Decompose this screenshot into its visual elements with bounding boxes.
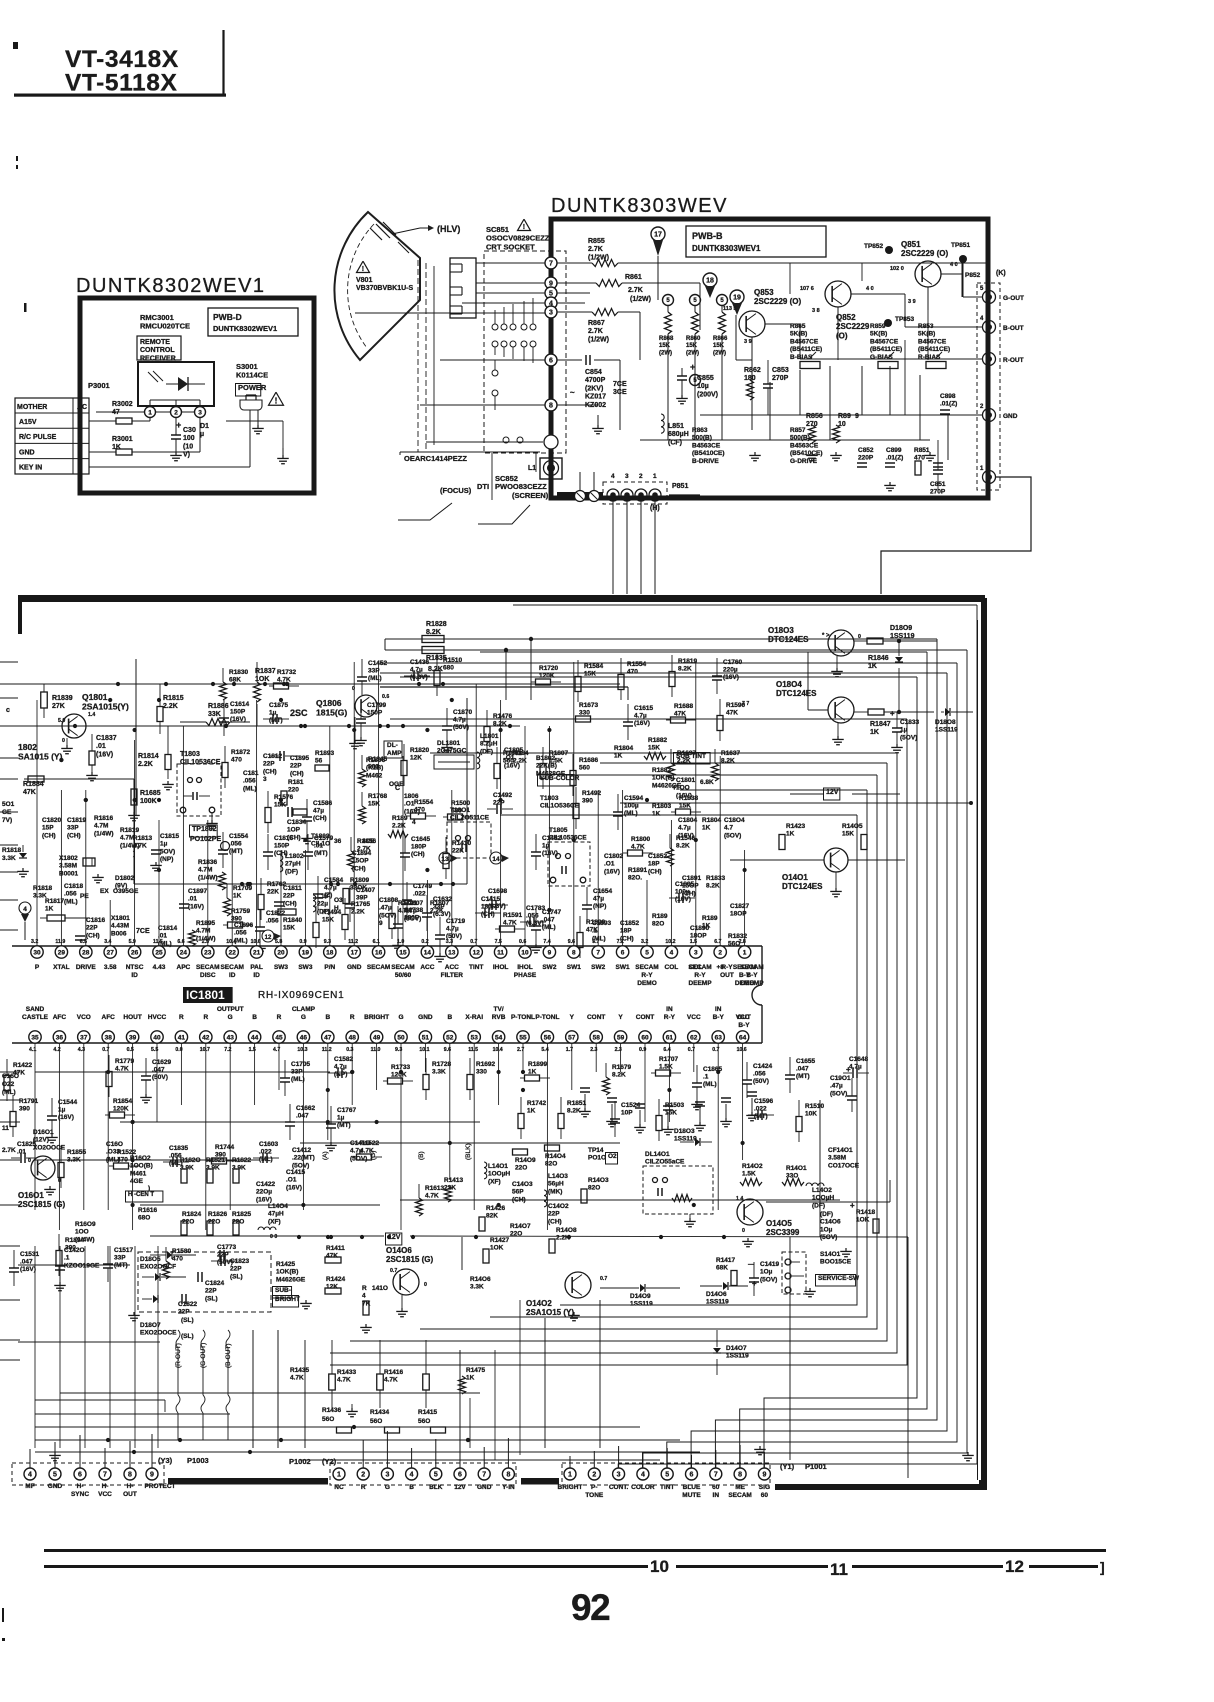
svg-text:L851: L851 (668, 423, 684, 430)
svg-text:O18O3: O18O3 (768, 626, 794, 635)
svg-text:.056: .056 (64, 891, 77, 898)
svg-text:C1822: C1822 (266, 910, 286, 917)
svg-text:TINT: TINT (660, 1484, 674, 1491)
svg-text:0 0: 0 0 (270, 1234, 277, 1240)
svg-text:C1524: C1524 (621, 1102, 641, 1109)
svg-text:56O: 56O (370, 1418, 382, 1425)
svg-text:O14O1: O14O1 (782, 873, 808, 882)
svg-text:15K: 15K (648, 745, 660, 752)
svg-text:R1804: R1804 (614, 745, 634, 752)
svg-text:82O: 82O (652, 921, 664, 928)
svg-text:R1813: R1813 (133, 835, 153, 842)
svg-text:(B): (B) (418, 1151, 425, 1160)
svg-text:27K: 27K (52, 703, 65, 710)
svg-text:9: 9 (150, 1472, 154, 1479)
svg-text:(CH): (CH) (411, 851, 425, 858)
svg-text:R867: R867 (588, 320, 605, 327)
svg-text:44: 44 (251, 1034, 259, 1041)
svg-text:2.7K: 2.7K (628, 287, 643, 294)
svg-text:R1679: R1679 (612, 1064, 632, 1071)
svg-text:OEARC1414PEZZ: OEARC1414PEZZ (404, 454, 467, 463)
svg-text:DL1801: DL1801 (437, 740, 461, 747)
svg-text:9: 9 (762, 1472, 766, 1479)
svg-text:R1433: R1433 (337, 1369, 357, 1376)
svg-text:(FOCUS): (FOCUS) (440, 486, 472, 495)
svg-text:Q1806: Q1806 (316, 698, 342, 708)
svg-text:(HLV): (HLV) (437, 224, 460, 234)
svg-text:1815(G): 1815(G) (316, 708, 347, 718)
svg-text:63: 63 (715, 1034, 723, 1041)
svg-text:47K: 47K (23, 789, 36, 796)
svg-text:1802: 1802 (18, 742, 37, 752)
svg-text:D16O1: D16O1 (33, 1129, 54, 1136)
svg-text:R1814: R1814 (138, 753, 159, 760)
svg-text:37: 37 (80, 1034, 88, 1041)
svg-text:19: 19 (302, 949, 310, 956)
svg-text:(ML): (ML) (64, 898, 78, 905)
svg-text:5.8: 5.8 (275, 939, 282, 945)
svg-text:PHASE: PHASE (514, 972, 537, 979)
svg-text:C1554: C1554 (229, 833, 249, 840)
svg-text:C14O2: C14O2 (548, 1203, 569, 1210)
svg-text:R1839: R1839 (52, 695, 73, 702)
svg-text:G: G (301, 1014, 306, 1021)
svg-text:C1584: C1584 (324, 877, 344, 884)
svg-text:150P: 150P (274, 843, 290, 850)
svg-text:R1686: R1686 (579, 757, 599, 764)
svg-text:1: 1 (337, 1472, 341, 1479)
svg-text:VCC: VCC (98, 1491, 112, 1498)
svg-text:(CH): (CH) (548, 1218, 562, 1225)
svg-text:100K: 100K (140, 798, 157, 805)
svg-text:560: 560 (368, 764, 379, 771)
svg-text:61: 61 (666, 1034, 674, 1041)
svg-text:4: 4 (23, 906, 27, 913)
svg-text:(ML): (ML) (368, 675, 382, 682)
svg-text:3 9: 3 9 (908, 299, 916, 305)
svg-text:22O: 22O (515, 1165, 527, 1172)
svg-text:(NP): (NP) (334, 1071, 347, 1078)
svg-text:R859: R859 (870, 323, 886, 330)
svg-text:ID: ID (229, 972, 236, 979)
svg-text:.1: .1 (64, 1255, 70, 1262)
svg-text:B4567CE: B4567CE (790, 338, 819, 345)
svg-text:3.3K: 3.3K (2, 855, 16, 862)
svg-text:G: G (385, 1484, 390, 1491)
svg-text:!: ! (523, 223, 525, 231)
svg-text:2SA1O15 (Y): 2SA1O15 (Y) (526, 1308, 574, 1317)
svg-text:R1732: R1732 (277, 669, 297, 676)
svg-text:C1822: C1822 (178, 1301, 198, 1308)
svg-text:100: 100 (183, 435, 195, 442)
svg-text:220P: 220P (858, 455, 874, 462)
svg-text:D14O7: D14O7 (726, 1345, 747, 1352)
svg-text:R1856: R1856 (357, 838, 377, 845)
svg-text:R1616: R1616 (138, 1207, 158, 1214)
svg-text:60: 60 (641, 1034, 649, 1041)
svg-text:.047: .047 (20, 1259, 33, 1266)
svg-text:(16V): (16V) (58, 1114, 74, 1121)
svg-text:BRIGHT: BRIGHT (364, 1014, 389, 1021)
svg-text:(50V): (50V) (453, 724, 469, 731)
svg-text:C1419: C1419 (760, 1261, 780, 1268)
svg-text:RMCU020TCE: RMCU020TCE (140, 322, 190, 331)
svg-text:11.5: 11.5 (468, 1047, 478, 1053)
svg-text:]: ] (1100, 1559, 1105, 1575)
svg-text:P852: P852 (965, 272, 981, 279)
svg-text:(B5411CE): (B5411CE) (918, 346, 950, 353)
svg-text:Y: Y (570, 1014, 575, 1021)
svg-text:R1410: R1410 (452, 840, 472, 847)
svg-text:390: 390 (582, 798, 593, 805)
svg-text:TONE: TONE (585, 1492, 604, 1499)
svg-text:.O1: .O1 (604, 861, 615, 868)
svg-text:R1804: R1804 (702, 817, 722, 824)
svg-text:10.6: 10.6 (737, 1047, 747, 1053)
svg-text:(DF): (DF) (820, 1211, 833, 1218)
svg-text:0: 0 (742, 1228, 745, 1234)
svg-text:R: R (361, 1484, 366, 1491)
svg-text:2SC2229 (O): 2SC2229 (O) (901, 249, 948, 258)
svg-text:.022: .022 (259, 1149, 272, 1156)
svg-text:(B5411CE): (B5411CE) (870, 346, 902, 353)
svg-text:DUNTK8302WEV1: DUNTK8302WEV1 (213, 324, 277, 333)
svg-text:17: 17 (351, 949, 359, 956)
svg-text:SECAM: SECAM (196, 964, 219, 971)
svg-text:C1773: C1773 (217, 1244, 237, 1251)
svg-text:R1416: R1416 (384, 1369, 404, 1376)
svg-text:R14O1: R14O1 (786, 1165, 807, 1172)
svg-text:R856: R856 (806, 413, 823, 420)
svg-text:1K: 1K (870, 729, 879, 736)
svg-text:22P: 22P (548, 1211, 560, 1218)
svg-text:SECAM: SECAM (635, 964, 658, 971)
svg-text:SERVICE-SW: SERVICE-SW (818, 1275, 860, 1282)
svg-text:43: 43 (227, 1034, 235, 1041)
svg-text:53: 53 (471, 1034, 479, 1041)
svg-text:C30: C30 (183, 427, 196, 434)
svg-text:3.2: 3.2 (31, 939, 38, 945)
svg-text:CIL10536CE: CIL10536CE (180, 759, 221, 766)
svg-text:ID: ID (131, 972, 138, 979)
svg-text:R: R (350, 1014, 355, 1021)
svg-text:SIG: SIG (759, 1484, 770, 1491)
svg-text:+: + (690, 362, 695, 372)
svg-text:68K: 68K (716, 1265, 728, 1272)
svg-text:390: 390 (65, 1245, 76, 1252)
svg-text:C1412: C1412 (292, 1147, 312, 1154)
svg-text:HOUT: HOUT (123, 1014, 141, 1021)
svg-text:(XF): (XF) (488, 1178, 501, 1185)
svg-text:CONT: CONT (587, 1014, 605, 1021)
svg-text:29: 29 (58, 949, 66, 956)
svg-text:5: 5 (665, 1472, 669, 1479)
svg-text:D14O9: D14O9 (630, 1293, 651, 1300)
svg-text:R1833: R1833 (706, 875, 726, 882)
svg-text:56P: 56P (512, 1189, 524, 1196)
svg-text:C1579: C1579 (314, 835, 334, 842)
svg-text:R14O9: R14O9 (515, 1157, 536, 1164)
svg-text:!: ! (275, 396, 278, 405)
svg-text:BLUE: BLUE (683, 1484, 701, 1491)
svg-text:C16O: C16O (2, 1073, 19, 1080)
svg-text:3.58: 3.58 (104, 964, 117, 971)
svg-text:COLOR: COLOR (631, 1484, 655, 1491)
svg-text:DL-: DL- (387, 742, 398, 749)
svg-text:6: 6 (690, 1472, 694, 1479)
svg-text:.1: .1 (703, 1074, 709, 1081)
svg-text:R861: R861 (625, 274, 642, 281)
svg-text:17: 17 (654, 232, 662, 239)
svg-text:60: 60 (761, 1492, 769, 1499)
svg-text:L1: L1 (528, 465, 536, 472)
svg-text:100µ: 100µ (624, 803, 639, 810)
svg-text:47µH: 47µH (268, 1211, 284, 1218)
svg-text:47: 47 (112, 409, 120, 416)
svg-text:OSOCV0829CEZZ: OSOCV0829CEZZ (486, 234, 550, 243)
svg-text:SW3: SW3 (274, 964, 288, 971)
svg-text:B006: B006 (111, 930, 127, 937)
svg-text:1SS119: 1SS119 (706, 1299, 729, 1306)
svg-text:(16V): (16V) (286, 1184, 302, 1191)
svg-text:2.2K: 2.2K (138, 761, 153, 768)
svg-text:AFC: AFC (102, 1014, 116, 1021)
svg-text:8: 8 (738, 1472, 742, 1479)
svg-text:B-Y: B-Y (738, 1022, 750, 1029)
svg-text:C1824: C1824 (205, 1280, 225, 1287)
svg-text:(Z): (Z) (324, 892, 332, 899)
svg-text:EX: EX (100, 888, 109, 895)
svg-text:MF: MF (25, 1483, 34, 1490)
svg-text:R1584: R1584 (584, 663, 604, 670)
svg-text:PAL: PAL (250, 964, 263, 971)
svg-text:CILZO55aCE: CILZO55aCE (645, 1159, 685, 1166)
svg-text:5: 5 (53, 1472, 57, 1479)
svg-text:C854: C854 (585, 369, 602, 376)
svg-text:C1615: C1615 (634, 705, 654, 712)
svg-text:IHOL: IHOL (493, 964, 509, 971)
svg-text:R1899: R1899 (586, 919, 606, 926)
svg-text:47K: 47K (726, 710, 738, 717)
svg-text:C14O6: C14O6 (820, 1219, 841, 1226)
svg-text:CONT: CONT (636, 1014, 654, 1021)
svg-text:K0114CE: K0114CE (236, 371, 268, 380)
svg-text:C1897: C1897 (188, 888, 208, 895)
svg-text:R1651: R1651 (503, 750, 523, 757)
svg-text:.47µ: .47µ (830, 1083, 843, 1090)
svg-text:82K: 82K (486, 1213, 498, 1220)
svg-text:2: 2 (718, 949, 722, 956)
svg-text:10.3: 10.3 (297, 1047, 307, 1053)
svg-text:PWB-D: PWB-D (213, 312, 242, 322)
svg-text:180P: 180P (404, 915, 420, 922)
svg-text:CLAMP: CLAMP (292, 1006, 316, 1013)
svg-text:C1802: C1802 (604, 853, 624, 860)
svg-text:DEMO: DEMO (637, 980, 657, 987)
svg-text:3: 3 (625, 473, 629, 480)
svg-text:VCC: VCC (687, 1014, 701, 1021)
svg-text:B: B (252, 1014, 257, 1021)
svg-text:2SC2229 (O): 2SC2229 (O) (754, 297, 801, 306)
svg-text:3: 3 (694, 949, 698, 956)
svg-text:(SL): (SL) (230, 1273, 243, 1280)
svg-text:+: + (672, 783, 677, 792)
svg-text:O2: O2 (608, 1153, 617, 1160)
svg-text:APC: APC (177, 964, 191, 971)
svg-text:D14O6: D14O6 (706, 1291, 727, 1298)
svg-text:3.3K: 3.3K (432, 1069, 446, 1076)
svg-text:R1434: R1434 (370, 1409, 390, 1416)
svg-text:R1720: R1720 (539, 665, 559, 672)
svg-text:C1767: C1767 (337, 1107, 357, 1114)
svg-text:0: 0 (28, 1158, 31, 1164)
svg-text:(ML): (ML) (542, 924, 556, 931)
svg-text:22P: 22P (283, 893, 295, 900)
svg-text:(ML): (ML) (259, 1156, 273, 1163)
svg-text:(16V): (16V) (96, 751, 113, 758)
svg-text:Q851: Q851 (901, 240, 921, 249)
svg-text:1SS119: 1SS119 (726, 1353, 749, 1360)
svg-text:R1779: R1779 (115, 1058, 135, 1065)
svg-text:C1462: C1462 (542, 835, 562, 842)
svg-text:O16O1: O16O1 (18, 1191, 44, 1200)
svg-text:+: + (890, 709, 895, 718)
svg-text:8: 8 (572, 949, 576, 956)
svg-text:4.7K: 4.7K (133, 843, 147, 850)
svg-text:TP14: TP14 (588, 1147, 604, 1154)
svg-text:6: 6 (458, 1472, 462, 1479)
svg-text:D1: D1 (200, 423, 209, 430)
svg-text:9.6: 9.6 (568, 939, 575, 945)
svg-text:(2W): (2W) (659, 350, 672, 356)
svg-text:58: 58 (593, 1034, 601, 1041)
svg-text:.056: .056 (229, 841, 242, 848)
svg-text:(ML): (ML) (703, 1081, 717, 1088)
svg-text:18: 18 (706, 278, 714, 285)
svg-text:L1802: L1802 (285, 853, 304, 860)
svg-text:R-OUT: R-OUT (1003, 357, 1024, 364)
svg-text:1µ: 1µ (58, 1107, 66, 1114)
svg-text:S3001: S3001 (236, 362, 258, 371)
svg-text:0.9: 0.9 (299, 939, 306, 945)
svg-text:BRIGHT: BRIGHT (558, 1484, 583, 1491)
svg-text:SC851: SC851 (486, 225, 509, 234)
svg-text:.022: .022 (754, 1106, 767, 1113)
svg-text:(XF): (XF) (268, 1218, 281, 1225)
svg-text:B4563CE: B4563CE (692, 442, 721, 449)
svg-text:54: 54 (495, 1034, 503, 1041)
svg-text:(16V): (16V) (634, 720, 650, 727)
svg-text:42: 42 (202, 1034, 210, 1041)
svg-text:64: 64 (739, 1034, 747, 1041)
svg-text:R1825: R1825 (232, 1211, 252, 1218)
svg-text:(G-OUT): (G-OUT) (200, 1343, 207, 1368)
svg-text:3: 3 (385, 1472, 389, 1479)
svg-text:4.7µ: 4.7µ (410, 667, 423, 674)
svg-text:(Y2): (Y2) (322, 1457, 337, 1466)
svg-text:0: 0 (424, 1282, 427, 1288)
svg-text:R1741: R1741 (398, 900, 418, 907)
svg-text:C1582: C1582 (334, 1056, 354, 1063)
svg-text:SYNC: SYNC (71, 1491, 89, 1498)
svg-text:48: 48 (349, 1034, 357, 1041)
svg-text:22P: 22P (230, 1266, 242, 1273)
svg-text:38: 38 (105, 1034, 113, 1041)
svg-text:PO1O: PO1O (588, 1155, 606, 1162)
svg-text:33P: 33P (433, 904, 445, 911)
svg-text:(16V): (16V) (230, 716, 246, 723)
svg-text:G-BIAS: G-BIAS (870, 354, 893, 361)
svg-text:R1855: R1855 (67, 1149, 87, 1156)
svg-text:1.0: 1.0 (397, 939, 404, 945)
svg-text:12K: 12K (326, 1284, 338, 1291)
svg-text:GND: GND (418, 1014, 433, 1021)
svg-text:12: 12 (265, 935, 272, 941)
svg-text:22P: 22P (217, 1252, 229, 1259)
svg-text:C1852: C1852 (648, 853, 668, 860)
svg-text:R1418: R1418 (856, 1209, 876, 1216)
svg-text:OUTPUT: OUTPUT (217, 1006, 244, 1013)
svg-text:R1613: R1613 (425, 1185, 445, 1192)
svg-text:C1760: C1760 (723, 659, 743, 666)
svg-text:15K: 15K (842, 831, 854, 838)
svg-text:R1807: R1807 (549, 750, 569, 757)
svg-text:R1768: R1768 (368, 793, 388, 800)
svg-text:2.5: 2.5 (202, 939, 209, 945)
svg-text:1µ: 1µ (542, 843, 550, 850)
svg-text:50/60: 50/60 (395, 972, 412, 979)
svg-text:DEEMP: DEEMP (740, 980, 764, 987)
svg-text:8.2K: 8.2K (706, 883, 720, 890)
svg-text:C1837: C1837 (96, 735, 117, 742)
svg-text:5: 5 (645, 949, 649, 956)
svg-text:7.5: 7.5 (495, 939, 502, 945)
svg-text:9: 9 (855, 413, 859, 420)
svg-text:0.6: 0.6 (382, 694, 389, 700)
svg-text:15K: 15K (283, 925, 295, 932)
svg-text:+: + (752, 1279, 757, 1288)
svg-text:(5OV): (5OV) (724, 832, 741, 839)
svg-text:52: 52 (446, 1034, 454, 1041)
svg-text:1K: 1K (466, 1375, 475, 1382)
svg-text:R1822: R1822 (232, 1157, 252, 1164)
svg-text:C14O3: C14O3 (512, 1181, 533, 1188)
svg-text:2SA1015(Y): 2SA1015(Y) (82, 702, 129, 712)
svg-text:C1827: C1827 (730, 903, 750, 910)
svg-text:ID: ID (253, 972, 260, 979)
svg-text:(16V): (16V) (604, 868, 620, 875)
svg-text:C1698: C1698 (488, 888, 508, 895)
svg-text:BOO15CE: BOO15CE (820, 1259, 852, 1266)
svg-text:P-TONL: P-TONL (535, 1014, 559, 1021)
svg-text:7: 7 (482, 1472, 486, 1479)
svg-text:5K(B): 5K(B) (790, 331, 807, 338)
svg-text:R868: R868 (659, 336, 674, 342)
svg-text:D18O8: D18O8 (935, 719, 956, 726)
svg-text:NC: NC (334, 1484, 344, 1491)
svg-text:DTI: DTI (477, 482, 489, 491)
svg-text:10.4: 10.4 (226, 939, 236, 945)
svg-text:C1586: C1586 (313, 800, 333, 807)
svg-text:D1802: D1802 (115, 875, 135, 882)
svg-text:10.2: 10.2 (665, 939, 675, 945)
svg-text:4 0: 4 0 (950, 262, 958, 268)
svg-text:R851: R851 (914, 447, 930, 454)
svg-text:4.7M: 4.7M (198, 867, 212, 874)
svg-text:R: R (362, 1285, 367, 1292)
svg-text:36: 36 (334, 838, 342, 845)
svg-text:6: 6 (621, 949, 625, 956)
